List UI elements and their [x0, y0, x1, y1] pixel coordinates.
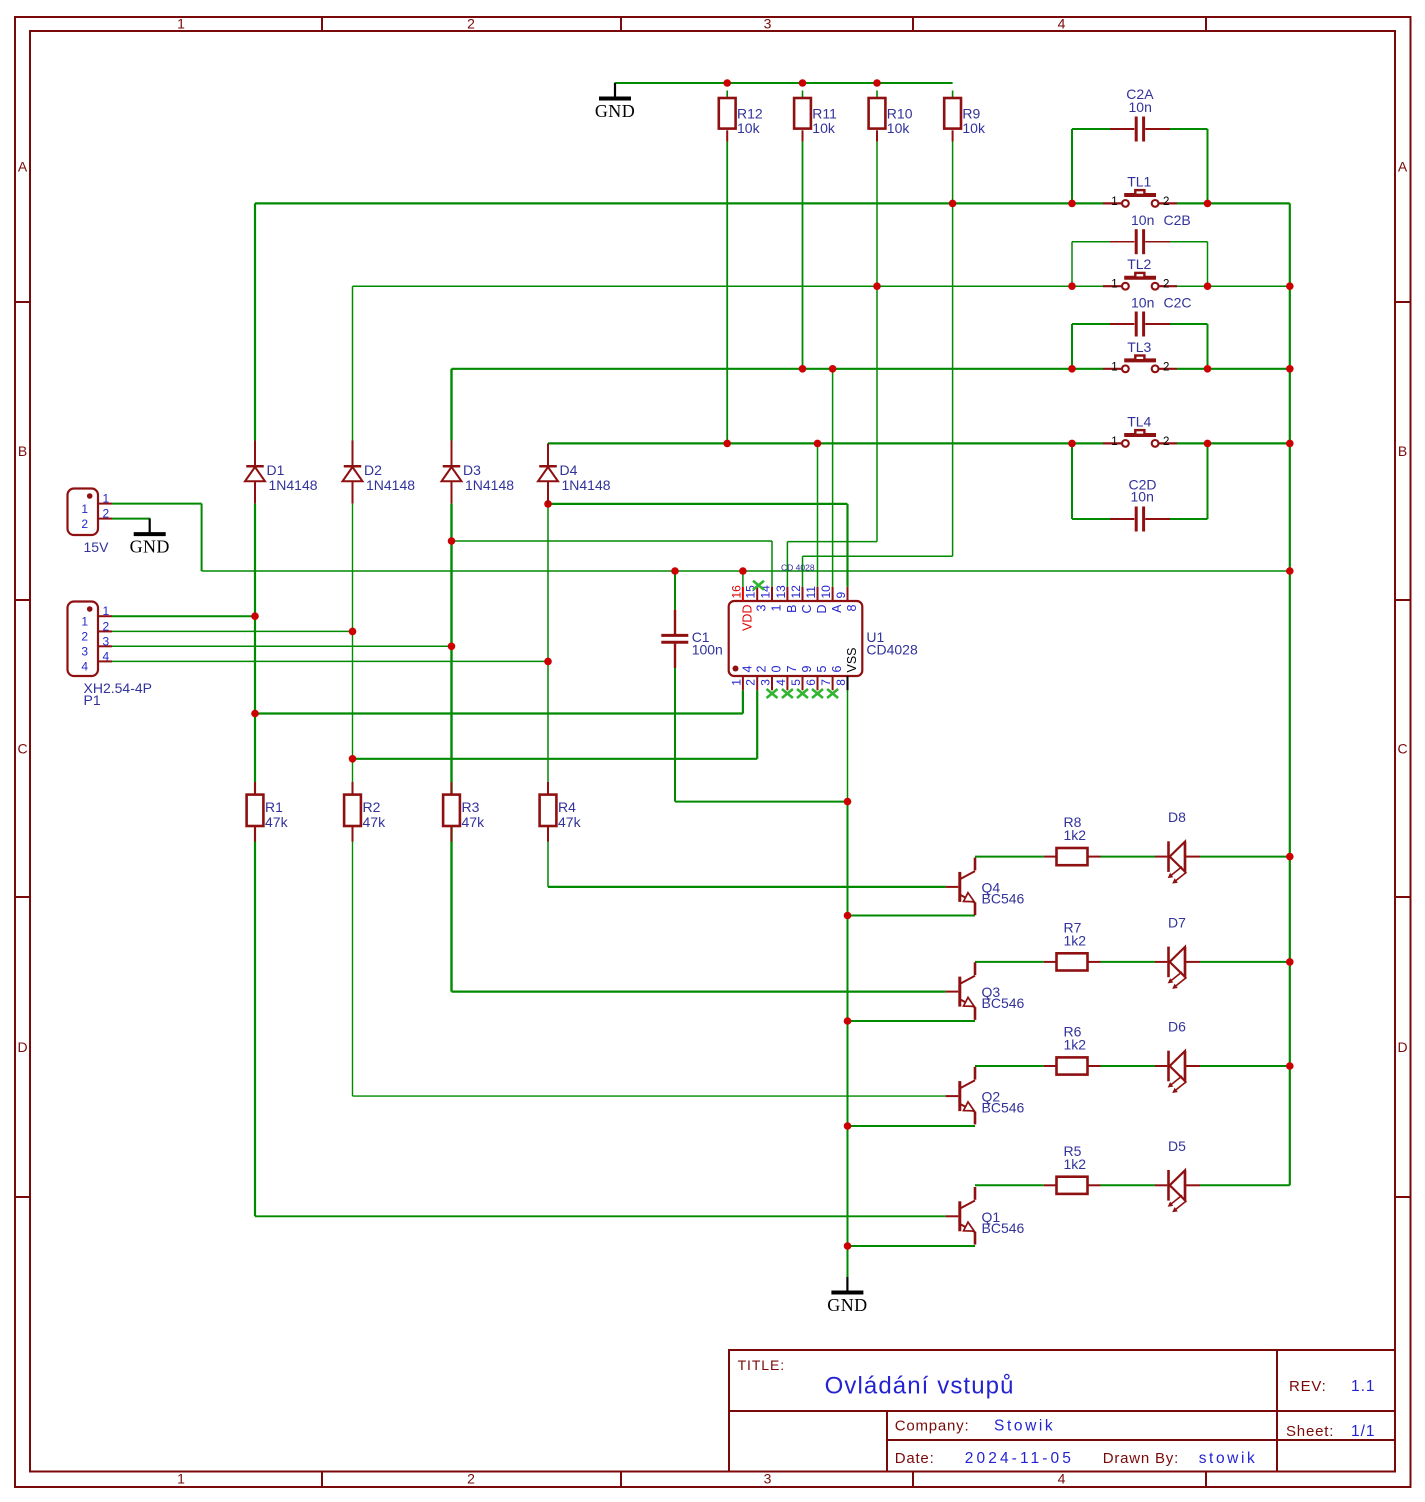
- svg-text:Sheet:: Sheet:: [1286, 1423, 1334, 1440]
- svg-text:1k2: 1k2: [1064, 1156, 1087, 1172]
- svg-text:Ovládání vstupů: Ovládání vstupů: [825, 1373, 1015, 1400]
- svg-text:D7: D7: [1168, 914, 1186, 930]
- svg-text:GND: GND: [130, 537, 170, 557]
- svg-text:47k: 47k: [558, 814, 582, 830]
- svg-text:6: 6: [830, 666, 844, 673]
- svg-text:10k: 10k: [887, 120, 911, 136]
- svg-text:3: 3: [759, 679, 773, 686]
- svg-text:B: B: [785, 605, 799, 613]
- svg-text:C: C: [17, 741, 27, 757]
- svg-text:11: 11: [804, 586, 818, 599]
- svg-text:D6: D6: [1168, 1019, 1186, 1035]
- svg-text:TL4: TL4: [1127, 413, 1151, 429]
- svg-text:1N4148: 1N4148: [562, 477, 611, 493]
- svg-text:TL3: TL3: [1127, 339, 1151, 355]
- svg-text:R4: R4: [558, 799, 576, 815]
- svg-text:2: 2: [1163, 279, 1169, 291]
- svg-text:P1: P1: [84, 692, 101, 708]
- svg-text:BC546: BC546: [982, 890, 1025, 906]
- svg-text:1N4148: 1N4148: [465, 477, 514, 493]
- svg-text:2: 2: [1163, 361, 1169, 373]
- svg-text:D4: D4: [560, 462, 578, 478]
- svg-text:3: 3: [103, 634, 110, 648]
- svg-text:7: 7: [785, 666, 799, 673]
- svg-text:1/1: 1/1: [1351, 1423, 1376, 1440]
- svg-text:10n: 10n: [1131, 489, 1154, 505]
- svg-text:TITLE:: TITLE:: [738, 1357, 785, 1373]
- svg-text:3: 3: [764, 16, 772, 32]
- svg-text:47k: 47k: [363, 814, 387, 830]
- svg-text:2: 2: [1163, 196, 1169, 208]
- svg-text:8: 8: [834, 679, 848, 686]
- svg-text:D2: D2: [364, 462, 382, 478]
- svg-text:CD4028: CD4028: [866, 642, 918, 658]
- svg-text:2: 2: [755, 666, 769, 673]
- svg-text:9: 9: [834, 592, 848, 599]
- svg-text:2024-11-05: 2024-11-05: [965, 1450, 1074, 1467]
- svg-text:3: 3: [81, 645, 88, 659]
- svg-text:D: D: [17, 1039, 27, 1055]
- svg-text:D1: D1: [267, 462, 285, 478]
- svg-text:10k: 10k: [812, 120, 836, 136]
- svg-text:7: 7: [819, 679, 833, 686]
- svg-text:10: 10: [819, 585, 833, 599]
- svg-text:15V: 15V: [84, 539, 110, 555]
- svg-text:10k: 10k: [737, 120, 761, 136]
- svg-text:1k2: 1k2: [1064, 1037, 1087, 1053]
- svg-text:10n: 10n: [1129, 99, 1152, 115]
- svg-text:4: 4: [1058, 16, 1066, 32]
- svg-text:stowik: stowik: [1199, 1450, 1258, 1467]
- svg-text:A: A: [18, 159, 28, 175]
- svg-text:2: 2: [744, 679, 758, 686]
- svg-text:D: D: [1397, 1039, 1407, 1055]
- svg-text:1k2: 1k2: [1064, 932, 1087, 948]
- svg-text:B: B: [18, 443, 27, 459]
- svg-text:10n: 10n: [1131, 294, 1154, 310]
- svg-text:3: 3: [755, 604, 769, 611]
- svg-text:5: 5: [789, 679, 803, 686]
- svg-text:C2C: C2C: [1164, 294, 1192, 310]
- svg-text:8: 8: [845, 604, 859, 611]
- svg-text:Drawn By:: Drawn By:: [1103, 1450, 1179, 1467]
- svg-text:1: 1: [729, 679, 743, 686]
- svg-text:2: 2: [81, 630, 88, 644]
- svg-text:REV:: REV:: [1289, 1378, 1327, 1395]
- svg-text:TL2: TL2: [1127, 256, 1151, 272]
- svg-text:2: 2: [103, 619, 110, 633]
- svg-text:A: A: [1398, 159, 1408, 175]
- svg-text:C2B: C2B: [1164, 212, 1191, 228]
- svg-text:1: 1: [103, 604, 110, 618]
- svg-text:VSS: VSS: [845, 647, 859, 672]
- svg-text:1N4148: 1N4148: [269, 477, 318, 493]
- svg-text:Stowik: Stowik: [994, 1417, 1055, 1434]
- svg-text:2: 2: [467, 1471, 475, 1487]
- svg-text:R2: R2: [363, 799, 381, 815]
- svg-text:VDD: VDD: [740, 605, 754, 631]
- svg-text:4: 4: [740, 666, 754, 673]
- svg-text:R1: R1: [265, 799, 283, 815]
- svg-text:GND: GND: [827, 1295, 867, 1315]
- svg-text:1: 1: [1111, 279, 1117, 291]
- svg-text:5: 5: [815, 666, 829, 673]
- svg-text:TL1: TL1: [1127, 173, 1151, 189]
- svg-text:BC546: BC546: [982, 995, 1025, 1011]
- svg-text:2: 2: [103, 507, 110, 521]
- svg-text:4: 4: [103, 649, 110, 663]
- svg-text:1: 1: [81, 502, 88, 516]
- svg-text:1: 1: [1111, 196, 1117, 208]
- svg-text:1: 1: [177, 16, 185, 32]
- svg-text:D: D: [815, 605, 829, 614]
- svg-text:6: 6: [804, 679, 818, 686]
- svg-text:1.1: 1.1: [1351, 1378, 1376, 1395]
- svg-text:100n: 100n: [692, 642, 723, 658]
- svg-text:1: 1: [81, 615, 88, 629]
- svg-text:1k2: 1k2: [1064, 827, 1087, 843]
- svg-text:B: B: [1398, 443, 1407, 459]
- svg-text:A: A: [830, 604, 844, 613]
- svg-text:1: 1: [177, 1471, 185, 1487]
- svg-text:1: 1: [1111, 361, 1117, 373]
- svg-text:BC546: BC546: [982, 1100, 1025, 1116]
- svg-text:Company:: Company:: [895, 1417, 970, 1434]
- svg-text:CD 4028: CD 4028: [781, 563, 815, 573]
- svg-text:13: 13: [774, 585, 788, 599]
- svg-text:D8: D8: [1168, 809, 1186, 825]
- svg-text:12: 12: [789, 585, 803, 599]
- svg-text:47k: 47k: [462, 814, 486, 830]
- svg-text:0: 0: [770, 666, 784, 673]
- svg-text:D3: D3: [463, 462, 481, 478]
- svg-text:BC546: BC546: [982, 1220, 1025, 1236]
- svg-text:47k: 47k: [265, 814, 289, 830]
- svg-text:2: 2: [1163, 436, 1169, 448]
- svg-text:1: 1: [103, 492, 110, 506]
- svg-text:2: 2: [467, 16, 475, 32]
- svg-text:16: 16: [729, 585, 743, 599]
- svg-text:C: C: [800, 605, 814, 614]
- svg-text:1: 1: [770, 604, 784, 611]
- svg-text:C: C: [1397, 741, 1407, 757]
- svg-text:10n: 10n: [1131, 212, 1154, 228]
- svg-text:Date:: Date:: [895, 1450, 935, 1467]
- svg-text:3: 3: [764, 1471, 772, 1487]
- svg-text:GND: GND: [595, 101, 635, 121]
- svg-text:4: 4: [81, 660, 88, 674]
- svg-text:1: 1: [1111, 436, 1117, 448]
- svg-text:2: 2: [81, 517, 88, 531]
- svg-text:D5: D5: [1168, 1138, 1186, 1154]
- svg-text:4: 4: [774, 679, 788, 686]
- svg-text:R3: R3: [462, 799, 480, 815]
- svg-text:9: 9: [800, 666, 814, 673]
- svg-text:1N4148: 1N4148: [366, 477, 415, 493]
- svg-text:10k: 10k: [962, 120, 986, 136]
- svg-text:4: 4: [1058, 1471, 1066, 1487]
